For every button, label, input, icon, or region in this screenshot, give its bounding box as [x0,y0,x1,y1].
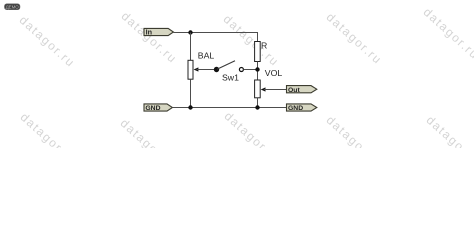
svg-text:BAL: BAL [198,51,215,61]
node junction R/VOL/switch [255,67,259,71]
node junction VOL/rail [255,105,259,109]
wire: switch to junction [243,69,258,71]
badge stamp top-left [5,4,20,10]
watermarks (decorative) [17,13,78,70]
wire: corner down to R [257,32,259,42]
label VOL [265,68,283,78]
switch Sw1 [214,61,244,73]
wire: BAL bottom to rail [190,79,192,108]
potentiometer BAL [188,60,217,79]
wire: bottom rail [172,107,287,109]
node tag In [144,27,173,36]
node tag GND right [287,104,317,112]
svg-text:R: R [261,41,267,51]
wire: R bottom to VOL top [257,62,259,81]
node tag GND left [144,104,172,112]
svg-text:Out: Out [288,87,300,94]
svg-text:In: In [146,27,152,36]
wire: In tag to corner [173,32,258,34]
potentiometer VOL [255,80,287,98]
svg-text:ДЕМО: ДЕМО [6,5,20,10]
wire: junction down to BAL [190,33,192,61]
node junction BAL/rail [188,105,192,109]
label R [261,41,267,51]
svg-text:Sw1: Sw1 [222,73,239,83]
resistor R [255,42,261,62]
svg-text:GND: GND [288,105,303,112]
wire: VOL bottom to rail [257,98,259,108]
node junction on top wire [188,30,192,34]
label BAL [198,51,215,61]
node tag Out [287,86,317,94]
svg-text:VOL: VOL [265,68,283,78]
svg-text:GND: GND [145,105,160,112]
label Sw1 [222,73,239,83]
